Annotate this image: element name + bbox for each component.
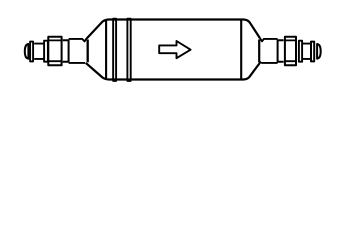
weld seam right <box>240 20 242 78</box>
rib ring 2 <box>127 19 130 81</box>
right washer <box>299 41 302 62</box>
left spud <box>69 38 87 63</box>
left neck <box>34 44 45 59</box>
right hex nut <box>285 37 296 65</box>
right spud <box>260 38 278 63</box>
weld seam left <box>105 20 107 78</box>
rib ring 1 <box>113 19 116 81</box>
left nut facet lines <box>48 40 61 61</box>
right flange <box>311 42 314 62</box>
left hex nut <box>48 37 61 65</box>
left washer <box>44 41 48 62</box>
shell top outline <box>87 20 260 39</box>
right nut facet lines <box>285 40 296 61</box>
left flange <box>30 42 33 62</box>
right neck <box>303 44 311 59</box>
left bell mouth edge <box>87 40 89 63</box>
right cap <box>317 44 321 59</box>
right collar <box>278 39 284 62</box>
right bell mouth edge <box>258 40 260 63</box>
left cap <box>25 44 29 59</box>
left collar <box>63 39 69 62</box>
filter drier schematic <box>0 0 350 100</box>
shell bottom outline <box>86 62 261 80</box>
flow arrow <box>159 41 190 58</box>
